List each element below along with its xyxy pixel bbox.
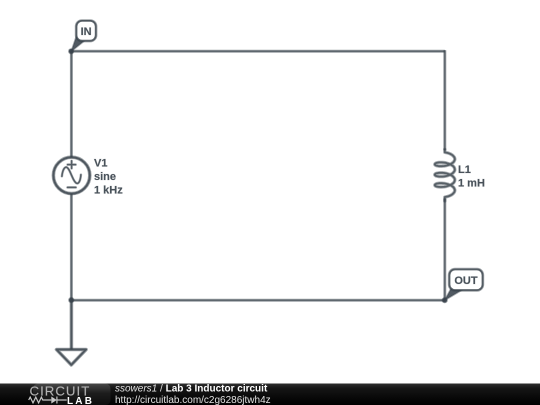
svg-text:L1: L1 <box>458 164 471 176</box>
footer bar <box>0 384 540 405</box>
L1 value labels <box>458 164 485 190</box>
svg-text:IN: IN <box>81 26 92 38</box>
svg-text:ssowers1 / Lab 3 Inductor circ: ssowers1 / Lab 3 Inductor circuit <box>115 383 268 394</box>
wire left vertical lower (V1 bottom to ground node) <box>70 193 73 300</box>
wire right vertical upper (corner to inductor L1) <box>443 50 446 150</box>
node label IN box <box>77 21 96 41</box>
node bottom-left junction dot <box>68 297 74 303</box>
wire left vertical upper (IN node to V1 top) <box>70 50 73 158</box>
logo resistor zigzag <box>29 397 67 404</box>
V1 value labels <box>94 158 123 197</box>
svg-text:LAB: LAB <box>67 396 94 405</box>
svg-text:1 kHz: 1 kHz <box>94 185 123 197</box>
svg-text:http://circuitlab.com/c2g6286j: http://circuitlab.com/c2g6286jtwh4z <box>115 395 271 405</box>
ground triangle <box>57 350 87 365</box>
CircuitLab logo badge <box>33 384 111 405</box>
wire bottom (ground node to OUT node) <box>71 299 444 302</box>
node IN junction dot <box>68 48 74 54</box>
node label IN pointer wedge <box>71 35 84 51</box>
wire right vertical lower (inductor L1 to OUT node) <box>443 199 446 301</box>
node label OUT box <box>450 270 483 291</box>
svg-text:sine: sine <box>94 171 116 183</box>
svg-text:V1: V1 <box>94 158 107 170</box>
logo diode bar and wire <box>57 399 67 401</box>
svg-text:OUT: OUT <box>454 275 478 287</box>
node OUT junction dot <box>442 297 448 303</box>
voltage source V1 circle <box>53 157 89 193</box>
logo diode triangle <box>51 397 57 404</box>
wire top (IN node to top-right corner) <box>71 50 444 53</box>
V1 sine waveform <box>62 167 81 183</box>
svg-text:1 mH: 1 mH <box>458 178 485 190</box>
V1 minus sign <box>68 186 76 189</box>
V1 plus sign <box>68 161 76 169</box>
inductor L1 coil <box>435 150 455 202</box>
node label OUT pointer wedge <box>445 289 464 301</box>
ground stem <box>70 300 74 349</box>
